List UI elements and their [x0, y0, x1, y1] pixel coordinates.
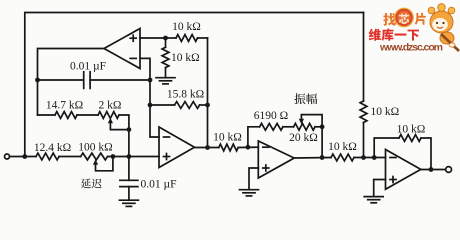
- svg-text:0.01 µF: 0.01 µF: [141, 178, 177, 190]
- ground under R4: [156, 78, 175, 84]
- watermark mascot: [428, 4, 459, 51]
- wire: U4 + input to ground: [374, 180, 386, 197]
- svg-text:www.dzsc.com: www.dzsc.com: [379, 42, 443, 54]
- potentiometer R2 100 kΩ (delay): [78, 141, 112, 160]
- wire: 14.7k/2k branch line: [38, 114, 99, 116]
- svg-text:6190 Ω: 6190 Ω: [254, 110, 288, 122]
- wiper of 2k pot: [108, 118, 131, 132]
- node G: U2 output node: [205, 145, 210, 150]
- watermark logo 找芯片: [383, 8, 425, 27]
- wire: left feedback vertical + top horizontal run: [25, 13, 364, 157]
- node L: output node: [429, 167, 434, 172]
- label 延迟 (delay): [81, 178, 102, 188]
- svg-text:10 kΩ: 10 kΩ: [172, 21, 201, 33]
- node A: junction of input rail and top feedback wire: [22, 154, 27, 159]
- wire: input rail segment from terminal to 12.4k: [10, 156, 37, 158]
- wire: 20k node down to U3 output line: [321, 127, 323, 158]
- potentiometer R7 2 kΩ: [98, 100, 121, 119]
- op-amp U2: [159, 127, 195, 168]
- svg-text:100 kΩ: 100 kΩ: [78, 141, 112, 153]
- resistor R6 14.7 kΩ: [46, 100, 83, 119]
- resistor R4 10 kΩ vertical to ground: [162, 38, 200, 78]
- node K: U4 feedback riser joins: [372, 155, 377, 160]
- potentiometer R10 20 kΩ (amplitude): [289, 123, 322, 143]
- capacitor C1 0.01 µF (series): [38, 60, 151, 88]
- resistor R9 6190 Ω: [254, 110, 294, 130]
- svg-text:10 kΩ: 10 kΩ: [328, 141, 357, 153]
- label 振幅 (amplitude): [294, 93, 317, 104]
- svg-text:10 kΩ: 10 kΩ: [213, 132, 242, 144]
- node D: cap wire joins U1-/U2- vertical: [148, 78, 153, 83]
- svg-text:20 kΩ: 20 kΩ: [289, 132, 318, 144]
- node J: top-feedback leg joins U4 - line: [361, 155, 366, 160]
- svg-text:0.01 µF: 0.01 µF: [70, 60, 106, 72]
- svg-text:2 kΩ: 2 kΩ: [99, 100, 122, 112]
- output terminal: [446, 167, 452, 173]
- wire: U3 + input to ground: [249, 168, 258, 190]
- op-amp U4: [386, 150, 421, 190]
- op-amp U1 (left-pointing comparator): [104, 29, 140, 69]
- svg-text:15.8 kΩ: 15.8 kΩ: [167, 88, 204, 100]
- resistor R1 12.4 kΩ: [34, 142, 71, 160]
- watermark text 维库一下: [369, 29, 419, 41]
- resistor R13 10 kΩ (U4 feedback): [374, 123, 431, 169]
- node I: amplitude tap joins U3 output: [320, 155, 325, 160]
- capacitor C2 0.01 µF (to ground): [120, 157, 177, 201]
- resistor R11 10 kΩ vertical (top feedback leg): [360, 13, 399, 158]
- wire: U1 output to left vertical: [38, 49, 105, 116]
- wire: U1 - input jog down to U2 - input: [140, 58, 159, 137]
- wire: U1 + input stub: [140, 36, 168, 41]
- svg-text:10 kΩ: 10 kΩ: [171, 52, 200, 64]
- node F: 15.8k right end junction: [205, 103, 210, 108]
- watermark url www.dzsc.com: [379, 42, 443, 54]
- wiper of 20k pot: [299, 115, 325, 130]
- wire: U4 output: [421, 169, 446, 171]
- ground under C2: [119, 200, 138, 206]
- svg-text:12.4 kΩ: 12.4 kΩ: [34, 142, 71, 154]
- node C: junction of U1 output leg and cap wire: [35, 78, 40, 83]
- wire: U3 feedback riser: [248, 127, 260, 147]
- node H: U3 - input node: [246, 145, 251, 150]
- wire: rail from 100k to op-amp U2 + input: [108, 156, 160, 158]
- op-amp U3: [258, 141, 294, 178]
- wire: vertical from R3 down to U2 output: [207, 38, 209, 148]
- input terminal: [5, 154, 10, 159]
- svg-text:14.7 kΩ: 14.7 kΩ: [46, 100, 83, 112]
- svg-text:10 kΩ: 10 kΩ: [371, 106, 400, 118]
- resistor R3 10 kΩ (top, U1+ to U2 out): [166, 21, 208, 41]
- node E: 15.8k joins vertical: [148, 103, 153, 108]
- resistor R5 15.8 kΩ (U2 feedback): [150, 88, 208, 108]
- node B: cap/2k branch on rail: [126, 154, 131, 159]
- wiper of 100k pot (rheostat tie): [93, 154, 115, 171]
- svg-text:10 kΩ: 10 kΩ: [397, 123, 426, 135]
- wire: U2 output: [195, 147, 219, 149]
- wire: 2k right end down to wiper node and rail node B: [119, 115, 129, 157]
- ground under U3 +: [240, 190, 259, 196]
- resistor R12 10 kΩ (U3 out to U4 -): [328, 141, 385, 161]
- ground under U4 +: [364, 197, 383, 203]
- resistor R8 10 kΩ (U2 out to U3 -): [213, 132, 258, 151]
- wire: U3 output run: [294, 157, 331, 160]
- wire: rail between 12.4k and 100k pot: [59, 156, 81, 158]
